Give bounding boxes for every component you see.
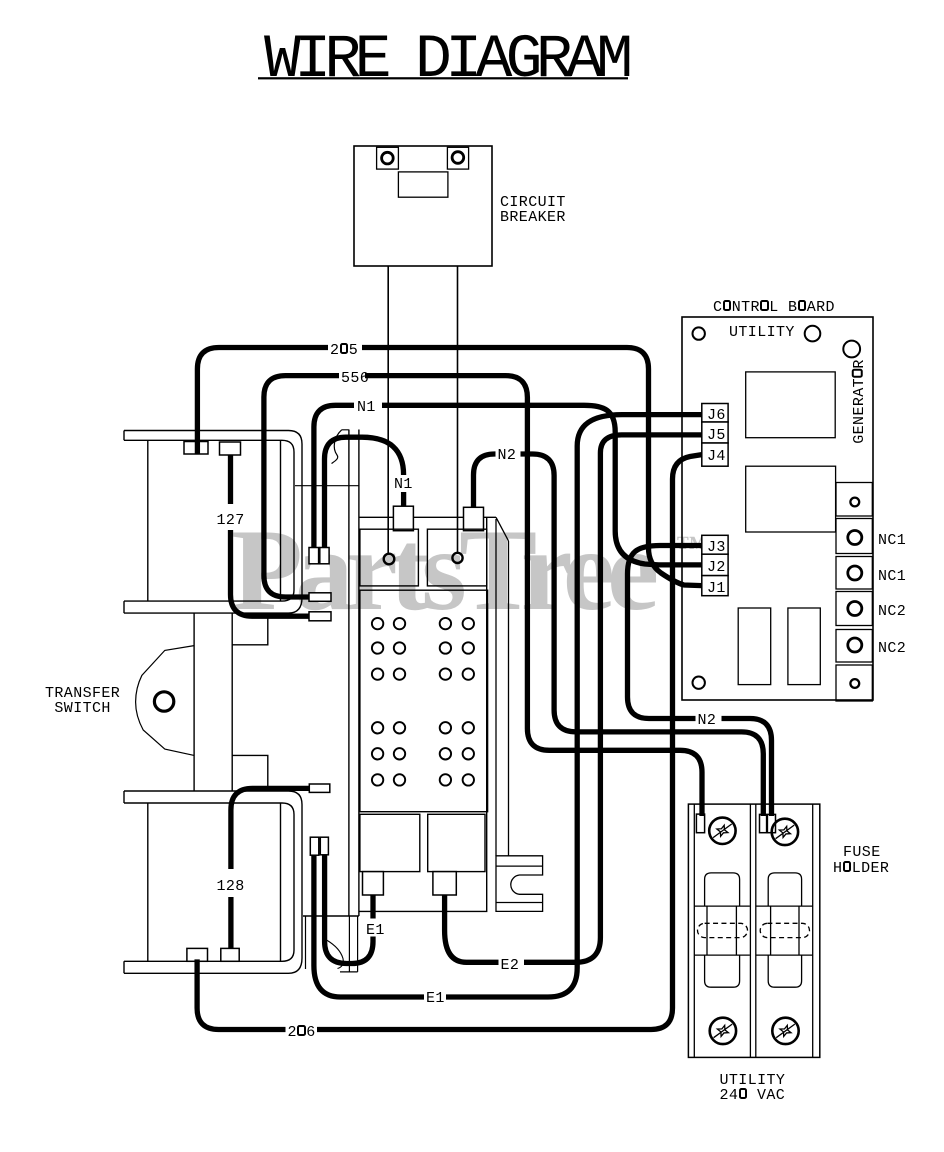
contactor left column xyxy=(303,430,359,917)
side pin 128 xyxy=(309,784,330,792)
circuit breaker screw box right xyxy=(447,147,468,169)
contactor side plate xyxy=(508,541,510,856)
wire N2 upper xyxy=(474,454,764,816)
label 127 xyxy=(217,513,245,528)
connector B pin 1 xyxy=(310,837,319,855)
fuse right dashed capsule xyxy=(760,923,809,937)
transfer switch lower step xyxy=(232,755,268,791)
title WIRE DIAGRAM xyxy=(264,30,626,92)
terminal J3 box xyxy=(702,535,728,554)
fuse terminal left xyxy=(696,814,704,833)
fuse left dashed capsule xyxy=(698,923,748,937)
transfer switch upper coil outer channel xyxy=(124,431,302,614)
wire 206 to J4 xyxy=(197,455,702,1030)
connector A pin 2 xyxy=(320,548,329,564)
contactor middle section xyxy=(360,590,488,812)
side pin 127 xyxy=(309,612,331,621)
fuse screw bottom-right xyxy=(772,1018,799,1044)
control board bottom rect left xyxy=(738,608,771,685)
control board hole top-mid xyxy=(805,326,821,342)
label E2 xyxy=(501,958,520,973)
label E1 upper xyxy=(366,923,385,938)
NC terminal strip box 5 NC2 xyxy=(836,630,872,663)
contactor terminal box N2 xyxy=(464,507,484,530)
lower column extension xyxy=(306,916,358,972)
contactor bottom sub-box right xyxy=(428,814,485,871)
wire E1 upper xyxy=(325,855,373,963)
label J3 xyxy=(707,540,726,555)
label NC1 b xyxy=(878,569,906,584)
fuse holder outline xyxy=(688,804,819,1057)
transfer switch upper coil left caps xyxy=(123,431,125,614)
contactor upper sub-box right xyxy=(427,529,486,586)
coil plate line xyxy=(295,485,359,487)
label UTILITY 240 VAC xyxy=(720,1073,786,1088)
control board hole generator xyxy=(843,341,860,358)
connector A pin 1 xyxy=(309,548,319,564)
transfer switch lower coil inner channel xyxy=(124,803,294,961)
transfer switch upper coil body sides xyxy=(148,440,281,601)
fuse screw top-left xyxy=(709,818,736,844)
label N1 terminal xyxy=(394,477,413,492)
circuit breaker screw left xyxy=(382,152,394,164)
terminal J1 box xyxy=(702,576,728,596)
label 206 xyxy=(288,1025,316,1040)
fuse terminal right 1 xyxy=(760,814,767,832)
transfer switch upper tab 1 xyxy=(184,442,208,455)
transfer switch lower tab 1 xyxy=(187,948,208,961)
fuse screw bottom-left xyxy=(710,1018,737,1044)
label 205 xyxy=(330,343,358,358)
terminal J4 box xyxy=(702,443,728,466)
fuse screw top-right xyxy=(772,819,799,845)
fuse module left divider lines xyxy=(694,906,750,955)
NC terminal strip box 4 NC2 xyxy=(836,592,872,626)
contactor upper sub-box left xyxy=(360,529,419,586)
fuse terminal right 2 xyxy=(767,814,775,832)
fuse cartridge right body xyxy=(771,906,799,955)
wire loop outline xyxy=(327,940,344,969)
fuse cartridge left body xyxy=(707,906,736,955)
wire 556 xyxy=(264,376,702,816)
wire 205 xyxy=(197,348,701,586)
label NC2 a xyxy=(878,604,906,619)
label J1 xyxy=(707,581,726,596)
terminal J2 box xyxy=(702,554,728,575)
label J2 xyxy=(707,560,726,575)
control board relay rect lower xyxy=(746,466,836,532)
wire N2 lower to J3 xyxy=(628,546,772,817)
transfer switch center column xyxy=(194,613,232,791)
contactor bottom sub-box left xyxy=(360,814,420,871)
transfer switch upper tab 2 xyxy=(220,442,241,455)
label GENERATOR vertical xyxy=(851,359,866,444)
fuse module right divider lines xyxy=(756,906,813,955)
circuit breaker screw right xyxy=(452,152,464,164)
wire 127 xyxy=(231,455,310,616)
label CONTROL BOARD xyxy=(713,300,835,315)
label 556 xyxy=(341,371,369,386)
transfer switch lower coil body sides xyxy=(148,803,281,961)
NC terminal strip box 3 NC1 xyxy=(836,557,872,590)
circuit breaker lead wire right xyxy=(457,266,459,552)
label NC2 b xyxy=(878,641,906,656)
transfer switch upper step xyxy=(232,613,268,645)
fuse cartridge left bottom cap xyxy=(705,955,740,987)
control board hole bottom-left xyxy=(693,677,705,689)
label J6 xyxy=(707,408,726,423)
title underline xyxy=(258,77,628,79)
control board hole top-left xyxy=(693,327,705,339)
terminal J5 box xyxy=(702,422,728,443)
watermark PartsTree xyxy=(231,504,651,638)
wire E2 to J5 xyxy=(445,435,702,962)
transfer switch lower coil outer channel xyxy=(124,791,302,973)
circuit breaker screw box left xyxy=(377,147,399,169)
circuit breaker CB body xyxy=(354,146,492,266)
transfer switch pivot circle xyxy=(154,692,173,711)
NC terminal strip box 6 xyxy=(836,665,872,701)
wire N1 short xyxy=(325,437,404,547)
wire 128 xyxy=(231,788,309,948)
transfer switch lower tab 2 xyxy=(221,948,239,961)
label NC1 a xyxy=(878,533,906,548)
label J5 xyxy=(707,428,726,443)
contactor body right edge xyxy=(359,518,487,911)
terminal J6 box xyxy=(702,404,728,423)
label CIRCUIT BREAKER xyxy=(500,195,566,225)
control board relay rect upper xyxy=(746,372,836,438)
label TRANSFER SWITCH xyxy=(45,686,120,716)
contactor mounting bracket xyxy=(496,856,543,912)
label UTILITY board xyxy=(729,325,795,340)
contactor bottom tab E1 xyxy=(363,872,384,895)
circuit breaker lead wire left xyxy=(387,266,389,553)
transfer switch upper coil inner channel xyxy=(124,440,294,601)
control board bottom rect right xyxy=(788,608,820,685)
circuit breaker inner rect xyxy=(398,172,448,197)
side pin 556 xyxy=(309,593,331,602)
connector B pin 2 xyxy=(320,837,328,855)
contactor terminal box N1 xyxy=(393,506,413,531)
label N1 wire xyxy=(357,400,376,415)
contactor contact circles xyxy=(372,618,474,786)
fuse cartridge right top cap xyxy=(768,873,801,906)
control board outline xyxy=(682,317,873,700)
fuse cartridge left top cap xyxy=(705,873,740,906)
contactor top edge xyxy=(359,517,509,856)
label N2 wire lower xyxy=(698,713,717,728)
transfer switch lower coil left caps xyxy=(123,791,125,973)
NC terminal strip box 1 xyxy=(836,483,872,517)
wire N1 long to J2 xyxy=(314,405,702,565)
transfer switch cam xyxy=(136,646,195,756)
label J4 xyxy=(707,449,726,464)
NC terminal strip box 2 NC1 xyxy=(836,519,872,554)
contactor bottom tab E2 xyxy=(433,872,456,895)
label 128 xyxy=(217,879,245,894)
watermark TM xyxy=(676,529,707,565)
fuse holder rails xyxy=(694,804,812,1057)
label E1 lower xyxy=(426,991,445,1006)
wire E1 bottom to J6 xyxy=(314,415,702,997)
fuse cartridge right bottom cap xyxy=(768,955,801,987)
hook clip upper xyxy=(332,430,349,464)
label FUSE HOLDER xyxy=(843,845,881,860)
label N2 wire upper xyxy=(498,448,517,463)
